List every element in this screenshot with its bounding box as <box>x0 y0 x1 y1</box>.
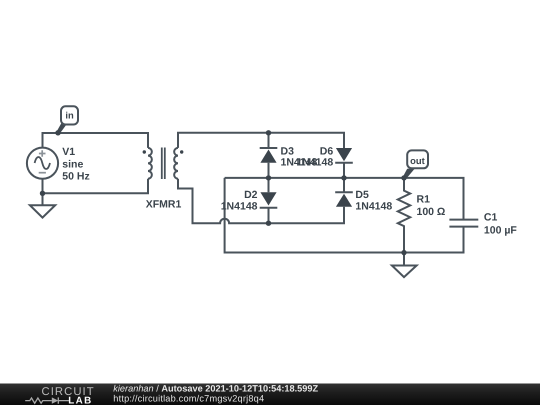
svg-text:out: out <box>410 155 425 166</box>
svg-text:R1: R1 <box>417 193 431 205</box>
svg-text:D5: D5 <box>355 189 369 201</box>
svg-text:V1: V1 <box>62 146 75 158</box>
svg-text:100 Ω: 100 Ω <box>417 206 446 218</box>
svg-text:sine: sine <box>62 159 83 171</box>
svg-text:100 µF: 100 µF <box>484 225 517 237</box>
svg-text:in: in <box>65 109 74 120</box>
svg-text:1N4148: 1N4148 <box>296 156 333 168</box>
svg-text:1N4148: 1N4148 <box>221 201 258 213</box>
svg-text:50 Hz: 50 Hz <box>62 170 89 182</box>
svg-text:D2: D2 <box>244 189 258 201</box>
svg-text:kieranhan / Autosave 2021-10-1: kieranhan / Autosave 2021-10-12T10:54:18… <box>113 383 318 393</box>
svg-text:LAB: LAB <box>68 395 92 405</box>
svg-text:1N4148: 1N4148 <box>355 201 392 213</box>
svg-text:XFMR1: XFMR1 <box>146 199 182 211</box>
svg-text:http://circuitlab.com/c7mgsv2q: http://circuitlab.com/c7mgsv2qrj8q4 <box>113 394 264 404</box>
svg-text:C1: C1 <box>484 211 498 223</box>
